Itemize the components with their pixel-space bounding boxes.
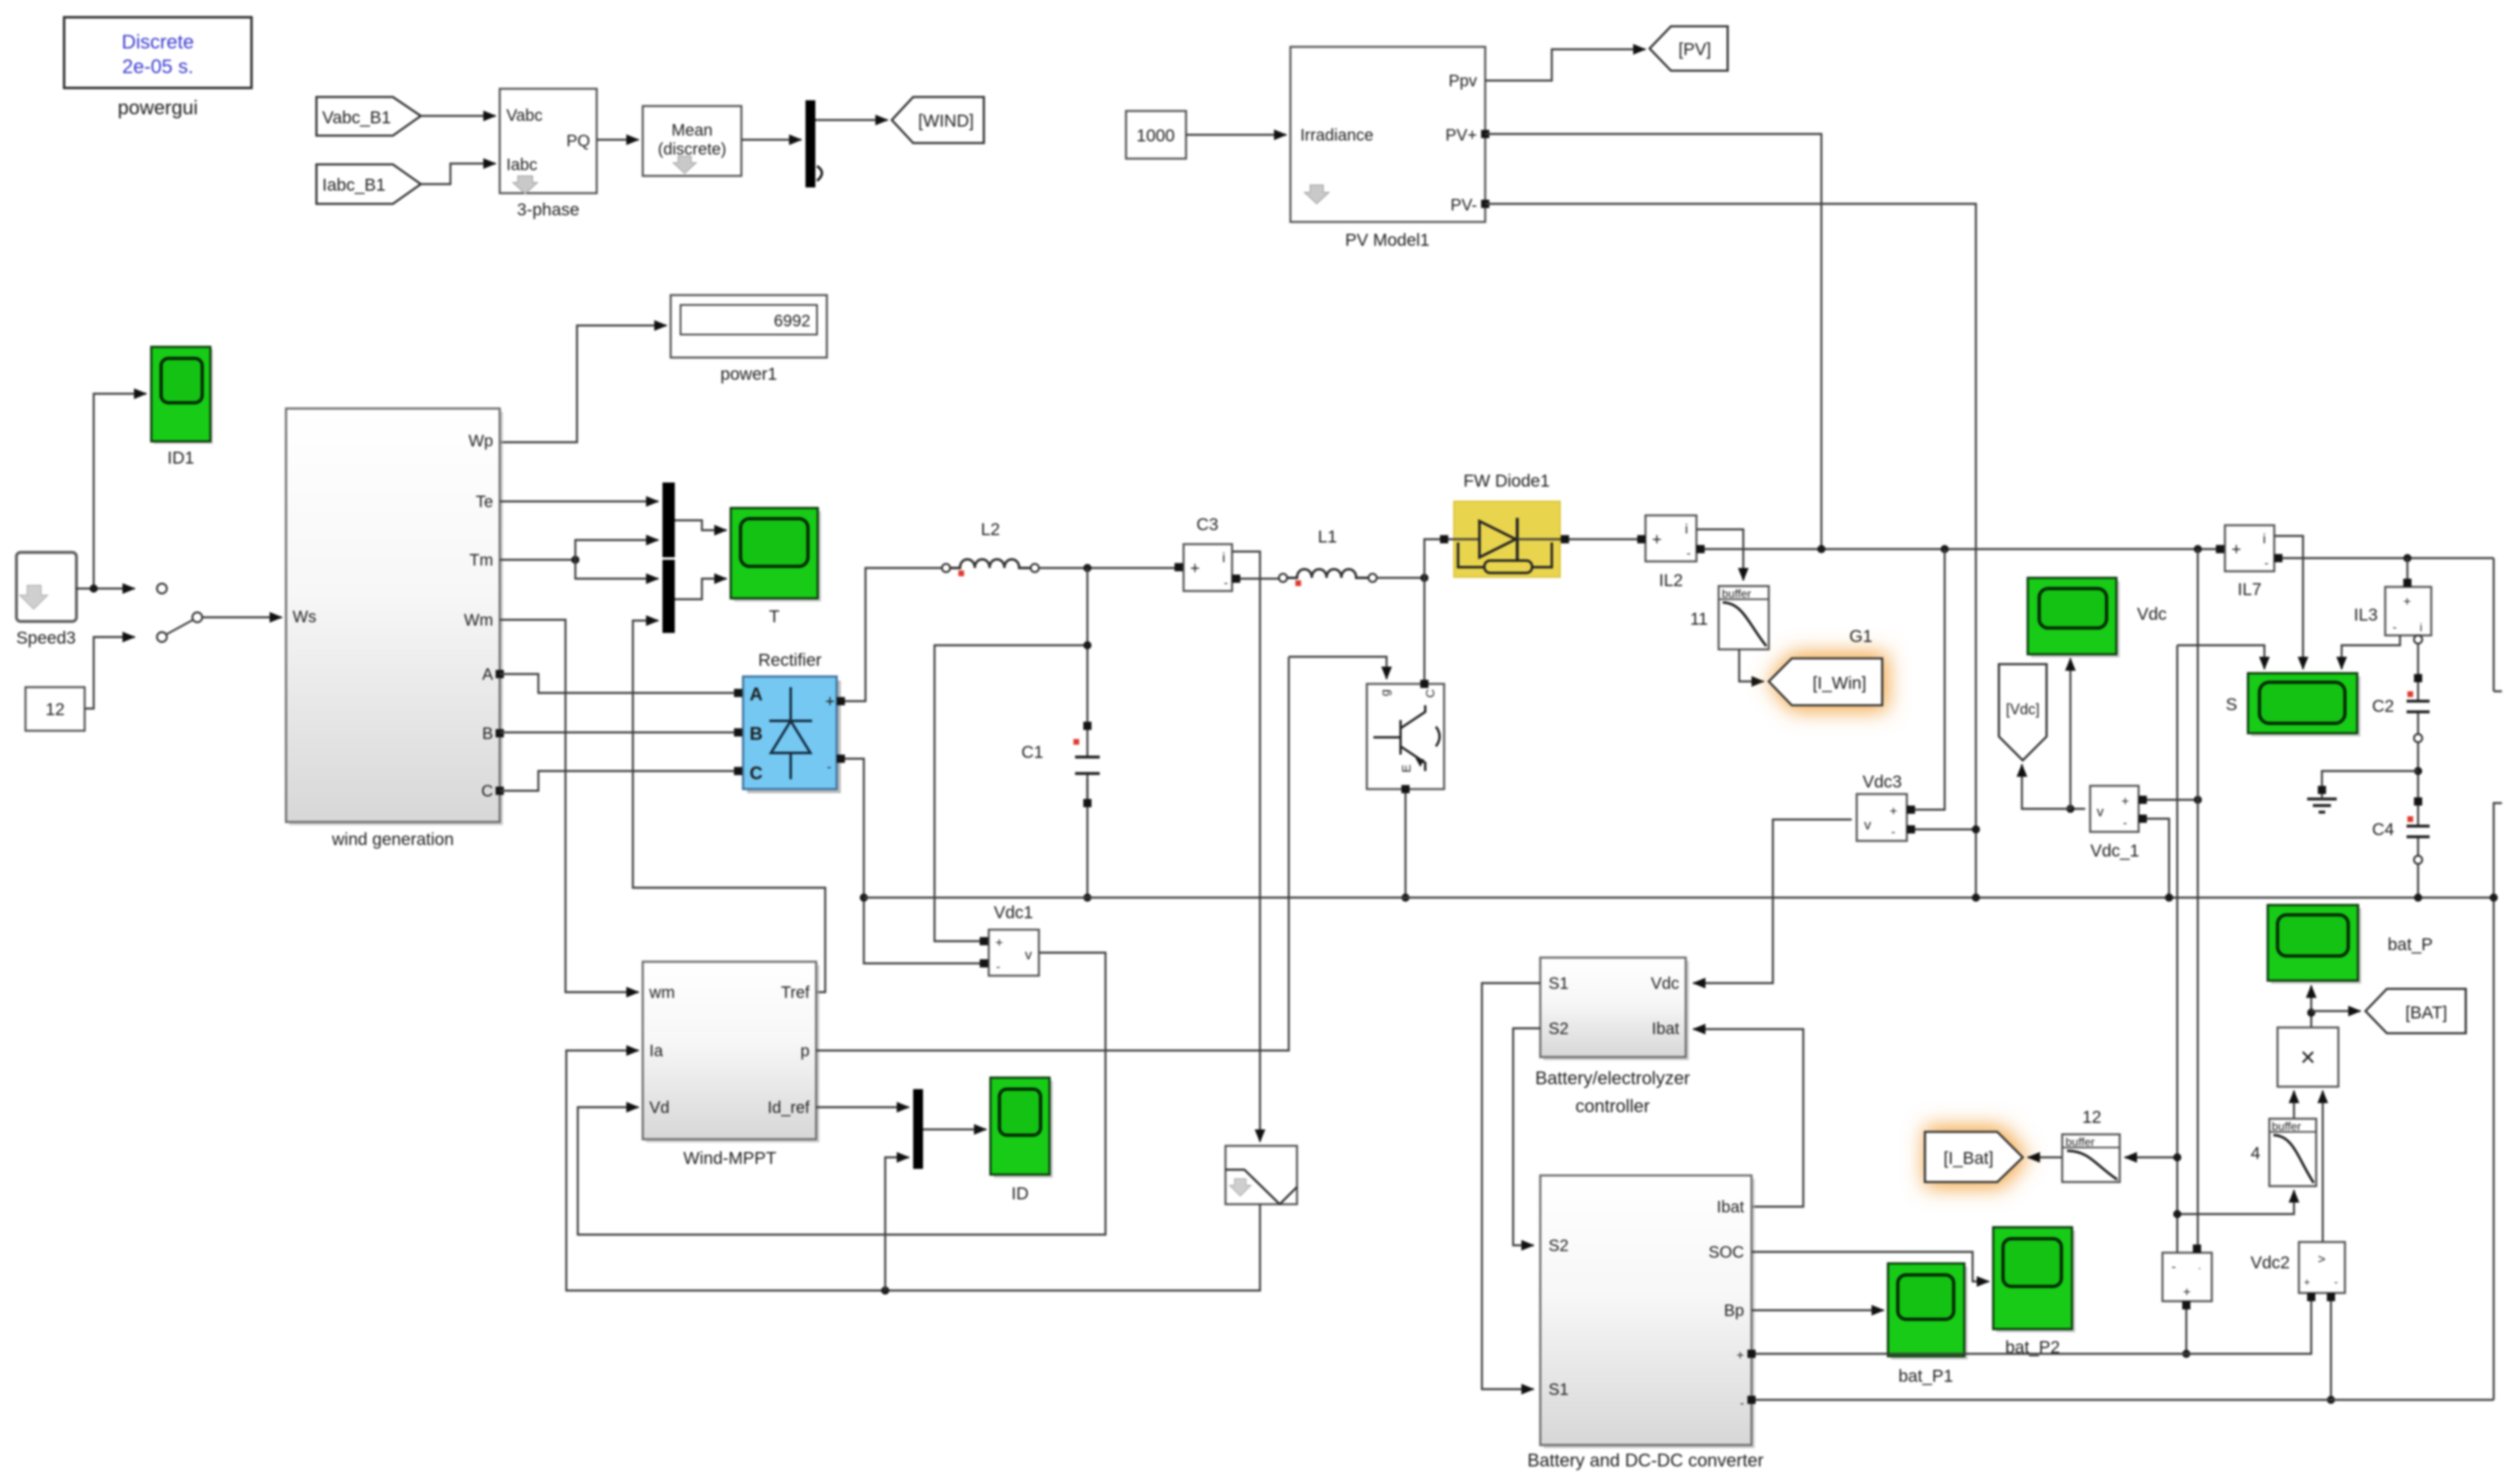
- node C1 bus: [1083, 893, 1092, 902]
- powergui block: [64, 17, 252, 119]
- wire L1 to diode node: [1377, 577, 1424, 579]
- node emitter bus: [1401, 893, 1410, 902]
- svg-text:C2: C2: [2372, 697, 2394, 716]
- wire PV- rail: [1485, 204, 1976, 898]
- svg-text:PV+: PV+: [1446, 127, 1477, 145]
- svg-text:IL3: IL3: [2354, 606, 2378, 625]
- IGBT block: [1367, 680, 1444, 793]
- goto tag [Vdc] vertical: [1999, 664, 2047, 760]
- svg-text:S1: S1: [1548, 1381, 1568, 1399]
- svg-text:Te: Te: [476, 493, 493, 511]
- wire 1000 to PV Model1: [1186, 134, 1286, 136]
- capacitor C1: [1022, 568, 1100, 898]
- svg-text:+: +: [2403, 595, 2411, 609]
- svg-text:v: v: [2097, 804, 2104, 820]
- node L2 C1 junction: [1083, 564, 1092, 572]
- wire IGBT emitter to bus: [1405, 793, 1406, 898]
- goto tag [WIND]: [892, 97, 984, 143]
- subsystem Wind-MPPT: [643, 962, 819, 1168]
- node PV- bus: [1972, 893, 1980, 902]
- 3-phase measurement block: [500, 89, 597, 219]
- svg-text:-: -: [2334, 1276, 2338, 1288]
- wire p to IGBT gate: [816, 657, 1289, 1050]
- wire Vdc_1 minus to bus: [2147, 819, 2169, 898]
- svg-text:C: C: [1424, 689, 1438, 698]
- wire Vdc_1 v to scope and goto: [2070, 808, 2085, 810]
- wire C4 to bus: [2417, 864, 2419, 898]
- wire C to Rectifier: [500, 771, 734, 791]
- svg-text:Vdc1: Vdc1: [994, 903, 1033, 922]
- svg-text:PQ: PQ: [566, 132, 590, 150]
- svg-text:Vabc_B1: Vabc_B1: [322, 109, 391, 127]
- svg-text:PV-: PV-: [1451, 196, 1477, 215]
- wire L2 to C3: [1039, 567, 1175, 569]
- wire Speed3 to switch: [76, 588, 135, 589]
- svg-text:+: +: [2232, 541, 2241, 559]
- svg-text:G1: G1: [1849, 627, 1872, 646]
- svg-text:-: -: [2123, 816, 2127, 830]
- wire buffer4 to product: [2293, 1091, 2295, 1119]
- wire mux to scope T in2: [675, 579, 727, 599]
- wire dc negative bus: [864, 897, 2494, 898]
- wire FW diode to IL2: [1569, 538, 1641, 540]
- wire Ibat to scope S: [2177, 645, 2264, 669]
- wire Vdc3 minus to PV- rail: [1915, 829, 1976, 830]
- svg-text:Iabc_B1: Iabc_B1: [322, 176, 385, 195]
- wire S1 to battery: [1482, 983, 1540, 1389]
- wire C2 to C4: [2417, 742, 2419, 797]
- node ground tap: [2414, 767, 2422, 775]
- svg-text:B: B: [482, 725, 493, 743]
- wire Ppv to goto PV: [1485, 49, 1645, 81]
- scope T: [731, 508, 821, 626]
- wire IL7 rail to IL3: [2407, 558, 2408, 583]
- wire IL2 i to buffer: [1696, 529, 1743, 580]
- wire gate signal: [1289, 657, 1387, 679]
- node Ia mux tap: [881, 1286, 889, 1295]
- wire A to Rectifier: [500, 674, 734, 693]
- svg-text:[I_Win]: [I_Win]: [1812, 674, 1866, 693]
- wire S2 to battery: [1513, 1028, 1540, 1245]
- svg-text:C: C: [750, 763, 763, 783]
- svg-text:-: -: [1740, 1397, 1744, 1411]
- svg-text:+: +: [1737, 1349, 1744, 1363]
- svg-text:Bp: Bp: [1724, 1302, 1744, 1320]
- wire C1 top to Vdc1 plus: [935, 645, 1087, 941]
- node PV+ tap: [1817, 545, 1825, 553]
- wire Vdc3 v to controller Vdc: [1693, 820, 1852, 983]
- svg-text:3-phase: 3-phase: [517, 201, 579, 219]
- svg-text:bat_P1: bat_P1: [1899, 1367, 1954, 1386]
- voltage measurement Vdc2: [2250, 1242, 2345, 1301]
- scope S: [2226, 673, 2361, 736]
- svg-text:v: v: [1025, 947, 1032, 963]
- source block Speed3: [16, 552, 76, 648]
- svg-text:Ppv: Ppv: [1449, 72, 1477, 90]
- inductor L1: [1279, 528, 1377, 586]
- svg-text:Vdc: Vdc: [1651, 975, 1679, 993]
- svg-text:i: i: [1685, 521, 1688, 537]
- svg-text:Id_ref: Id_ref: [768, 1099, 810, 1117]
- node rectifier minus bus: [860, 893, 868, 902]
- svg-text:C4: C4: [2372, 820, 2394, 839]
- svg-text:L1: L1: [1318, 528, 1336, 547]
- subsystem wind generation: [286, 409, 504, 849]
- wire PV+ rail: [1485, 134, 1821, 549]
- wire Vabc_B1 to 3-phase: [421, 115, 496, 117]
- svg-text:+: +: [825, 693, 835, 711]
- svg-text:E: E: [1400, 764, 1414, 773]
- svg-text:Ws: Ws: [293, 608, 316, 626]
- wire Iabc_B1 to 3-phase: [421, 164, 496, 184]
- svg-text:-: -: [1687, 547, 1691, 561]
- constant 1000: [1126, 111, 1186, 159]
- wire Ibat tap to buffer4: [2177, 1190, 2294, 1214]
- svg-text:bat_P: bat_P: [2388, 935, 2433, 954]
- wire switch to Ws: [202, 616, 282, 618]
- scope Vdc: [2028, 578, 2167, 658]
- node Speed3 branch: [90, 584, 98, 593]
- wire Tref feedback to mux: [633, 621, 825, 992]
- wire node down to IGBT collector: [1424, 578, 1425, 684]
- svg-text:+: +: [1652, 531, 1662, 549]
- svg-text:+: +: [1890, 805, 1897, 819]
- scope bat_P1: [1888, 1263, 1968, 1386]
- wire C3 i output down: [1232, 552, 1260, 1142]
- svg-text:Speed3: Speed3: [16, 629, 76, 648]
- svg-text:+: +: [1190, 560, 1200, 578]
- node L1 IGBT diode: [1420, 574, 1428, 582]
- node C1 Vdc1 tap: [1083, 641, 1092, 649]
- svg-text:controller: controller: [1576, 1096, 1650, 1116]
- wire 12 to switch: [85, 637, 135, 709]
- svg-text:12: 12: [45, 700, 64, 719]
- goto tag [BAT]: [2365, 989, 2466, 1033]
- wire Vdc_1 plus to rail: [2147, 799, 2198, 801]
- svg-text:6992: 6992: [774, 312, 811, 330]
- wire Ibat tap to buffer12: [2125, 1157, 2177, 1158]
- wire battery Ibat to controller: [1693, 1029, 1803, 1207]
- svg-text:+: +: [2183, 1286, 2190, 1300]
- svg-text:+: +: [995, 936, 1003, 950]
- controlled source block: [2162, 1244, 2212, 1309]
- svg-text:-: -: [1224, 576, 1228, 590]
- svg-text:[I_Bat]: [I_Bat]: [1944, 1149, 1994, 1168]
- svg-text:Irradiance: Irradiance: [1300, 127, 1373, 145]
- buffer block 12: [2062, 1108, 2120, 1182]
- wire Vdc2 minus to bottom bus: [2330, 1301, 2332, 1400]
- wire node up to FW diode: [1424, 539, 1440, 578]
- svg-text:Vd: Vd: [649, 1099, 669, 1117]
- svg-text:1000: 1000: [1137, 127, 1175, 145]
- svg-text:S2: S2: [1548, 1237, 1568, 1255]
- svg-text:Tm: Tm: [469, 552, 493, 570]
- svg-text:×: ×: [2301, 1042, 2316, 1072]
- wire battery minus bus: [1756, 1399, 2494, 1401]
- voltage measurement Vdc_1: [2090, 786, 2147, 861]
- svg-text:Tref: Tref: [781, 984, 810, 1002]
- svg-text:Vdc: Vdc: [2137, 605, 2167, 624]
- svg-text:power1: power1: [721, 365, 778, 384]
- wire mux to scope ID: [923, 1129, 986, 1130]
- svg-text:g: g: [1378, 690, 1392, 696]
- wire IL2 minus positive rail: [1705, 548, 2217, 550]
- svg-text:>: >: [2318, 1253, 2325, 1267]
- wire product to bat_P: [2310, 986, 2312, 1027]
- mux for WIND signal: [805, 100, 822, 187]
- goto tag [I_Win] with highlight: [1769, 627, 1887, 710]
- wire Vdc positive column: [2197, 549, 2199, 1253]
- svg-text:Mean: Mean: [672, 122, 713, 140]
- wire battery plus net: [1756, 1301, 2311, 1354]
- svg-text:FW Diode1: FW Diode1: [1463, 472, 1549, 491]
- svg-text:Vdc_1: Vdc_1: [2090, 842, 2139, 861]
- wire Wm to Wind-MPPT: [500, 620, 639, 992]
- svg-text:buffer: buffer: [2065, 1135, 2095, 1148]
- wire Wp to power1: [500, 326, 667, 442]
- wire C3 minus to L1: [1240, 578, 1279, 580]
- svg-text:Battery and DC-DC converter: Battery and DC-DC converter: [1527, 1450, 1763, 1471]
- wire source to battery plus net: [2185, 1309, 2187, 1354]
- wire rectifier minus to dc bus: [845, 759, 984, 963]
- wire Vdc1 v to Vd loop: [578, 953, 1105, 1235]
- svg-text:Rectifier: Rectifier: [758, 651, 821, 670]
- node Vdc3 minus: [1972, 825, 1980, 833]
- svg-text:S: S: [2226, 695, 2237, 714]
- wire PQ to Mean: [597, 139, 639, 141]
- svg-text:PV Model1: PV Model1: [1345, 231, 1430, 250]
- svg-text:4: 4: [2250, 1144, 2260, 1163]
- svg-text:powergui: powergui: [118, 97, 197, 119]
- svg-text:2e-05 s.: 2e-05 s.: [122, 56, 194, 78]
- goto tag [PV]: [1650, 26, 1728, 71]
- svg-text:wm: wm: [648, 984, 675, 1002]
- svg-text:+: +: [2304, 1276, 2310, 1288]
- capacitor C2: [2372, 644, 2430, 742]
- manual switch: [157, 584, 202, 642]
- svg-text:Ia: Ia: [649, 1042, 664, 1060]
- from tag Iabc_B1: [316, 164, 421, 204]
- svg-text:-: -: [827, 760, 831, 774]
- wire Bp to scope bat_P1: [1752, 1309, 1884, 1311]
- svg-text:buffer: buffer: [2272, 1120, 2301, 1133]
- svg-text:11: 11: [1690, 610, 1708, 629]
- svg-text:S2: S2: [1548, 1020, 1568, 1038]
- voltage measurement Vdc1: [980, 903, 1039, 976]
- svg-text:Ibat: Ibat: [1717, 1198, 1745, 1217]
- svg-text:Wm: Wm: [464, 612, 493, 630]
- display power1: [671, 295, 827, 384]
- ground: [2307, 771, 2418, 812]
- mux Te Tm: [662, 483, 675, 557]
- scope ID: [990, 1078, 1053, 1203]
- current measurement IL3: [2354, 579, 2431, 644]
- svg-text:-: -: [1891, 825, 1895, 839]
- svg-text:Vabc: Vabc: [506, 107, 542, 125]
- svg-text:[BAT]: [BAT]: [2406, 1004, 2448, 1023]
- svg-text:+: +: [2121, 795, 2129, 809]
- svg-text:wind generation: wind generation: [331, 830, 454, 849]
- scope bat_P2: [1993, 1227, 2075, 1357]
- svg-text:i: i: [1222, 550, 1225, 566]
- wire Ia tap to mux: [885, 1157, 909, 1291]
- inductor L2: [942, 520, 1039, 576]
- wire Id_ref to mux: [816, 1106, 909, 1108]
- svg-text:C: C: [482, 783, 493, 801]
- subsystem PV Model1: [1290, 47, 1489, 250]
- wire Tm to muxes: [500, 559, 575, 561]
- subsystem Battery/electrolyzer controller: [1535, 958, 1690, 1116]
- svg-text:-: -: [2172, 1260, 2176, 1274]
- svg-text:SOC: SOC: [1709, 1244, 1744, 1262]
- svg-text:IL2: IL2: [1659, 571, 1682, 590]
- svg-text:Battery/electrolyzer: Battery/electrolyzer: [1535, 1068, 1690, 1088]
- svg-text:buffer: buffer: [1722, 587, 1752, 600]
- svg-text:Discrete: Discrete: [122, 31, 194, 53]
- svg-text:[PV]: [PV]: [1678, 40, 1711, 59]
- buffer block 4: [2250, 1119, 2316, 1186]
- svg-text:[WIND]: [WIND]: [918, 112, 974, 131]
- mux ID: [913, 1089, 923, 1169]
- constant 12: [25, 687, 85, 731]
- Mean (discrete) block: [643, 106, 741, 176]
- svg-text:Vdc2: Vdc2: [2250, 1254, 2290, 1272]
- svg-text:i: i: [2420, 621, 2422, 634]
- svg-text:Wp: Wp: [468, 432, 493, 450]
- wire IL7 i to scope S: [2274, 536, 2303, 669]
- wire Vdc3 plus to positive rail: [1915, 549, 1945, 810]
- wire SOC to scope bat_P2: [1752, 1252, 1989, 1281]
- capacitor C4: [2372, 797, 2430, 864]
- wire Ia feedback loop: [566, 1050, 1260, 1291]
- goto tag [I_Bat] with highlight: [1925, 1127, 2028, 1187]
- svg-text:ID: ID: [1012, 1184, 1029, 1203]
- svg-text:C3: C3: [1197, 515, 1219, 534]
- node Vdc_1 tap: [2194, 545, 2202, 553]
- wire buffer12 to I_Bat: [2028, 1157, 2062, 1158]
- svg-text:T: T: [769, 607, 780, 626]
- svg-text:·: ·: [2198, 1262, 2201, 1274]
- current measurement C3: [1175, 515, 1240, 591]
- svg-text:[Vdc]: [Vdc]: [2005, 701, 2039, 718]
- svg-text:ID1: ID1: [168, 449, 195, 468]
- svg-text:12: 12: [2082, 1108, 2101, 1127]
- current measurement IL7: [2216, 525, 2282, 599]
- wire Ibat signal column: [2176, 645, 2178, 1253]
- wire Speed3 to ID1: [94, 394, 146, 589]
- saturation block for Ia: [1225, 1146, 1297, 1204]
- from tag Vabc_B1: [316, 97, 421, 136]
- rectifier bridge: [734, 651, 845, 793]
- svg-text:v: v: [1864, 817, 1872, 833]
- svg-text:A: A: [750, 684, 763, 704]
- wire stub right lower: [2494, 803, 2502, 1400]
- current measurement IL2: [1637, 515, 1705, 590]
- node Vdc3 tap: [1941, 545, 1949, 553]
- wire Te to mux: [500, 501, 658, 502]
- svg-text:A: A: [482, 666, 494, 684]
- wire product to goto BAT: [2311, 1010, 2361, 1012]
- wire IL7 minus rail: [2282, 557, 2494, 559]
- scope ID1: [151, 347, 213, 468]
- wire IL3 i to scope S: [2342, 635, 2400, 669]
- svg-text:L2: L2: [981, 520, 999, 539]
- svg-text:-: -: [2393, 621, 2397, 635]
- wire buffer to goto I_Win: [1739, 649, 1764, 681]
- svg-text:-: -: [996, 960, 1000, 974]
- wire mux to goto WIND: [815, 119, 888, 121]
- diode FW Diode1: [1440, 472, 1569, 577]
- wire rectifier plus to L2: [845, 568, 941, 701]
- mux Tm Tref: [662, 560, 675, 633]
- svg-text:Ibat: Ibat: [1652, 1020, 1680, 1038]
- subsystem Battery and DC-DC converter: [1527, 1175, 1763, 1471]
- buffer block 11: [1690, 586, 1769, 649]
- svg-text:S1: S1: [1548, 975, 1568, 993]
- svg-text:i: i: [2263, 531, 2266, 547]
- wire stub right upper: [2494, 558, 2502, 691]
- wire mux to scope T in1: [675, 520, 727, 530]
- svg-text:Iabc: Iabc: [506, 156, 538, 174]
- svg-text:Vdc3: Vdc3: [1862, 773, 1902, 792]
- wire Vdc2 to product: [2322, 1091, 2324, 1242]
- svg-text:B: B: [750, 723, 763, 744]
- product block: [2278, 1027, 2338, 1087]
- svg-text:-: -: [2264, 556, 2268, 570]
- voltage measurement Vdc3: [1857, 773, 1915, 841]
- svg-text:IL7: IL7: [2237, 580, 2261, 599]
- svg-text:C1: C1: [1022, 743, 1044, 762]
- wire Mean to mux: [741, 139, 801, 141]
- svg-text:(discrete): (discrete): [658, 141, 726, 159]
- svg-text:Wind-MPPT: Wind-MPPT: [683, 1149, 776, 1168]
- wire B to Rectifier: [500, 732, 734, 733]
- scope bat_P: [2268, 905, 2433, 984]
- svg-text:p: p: [801, 1042, 810, 1060]
